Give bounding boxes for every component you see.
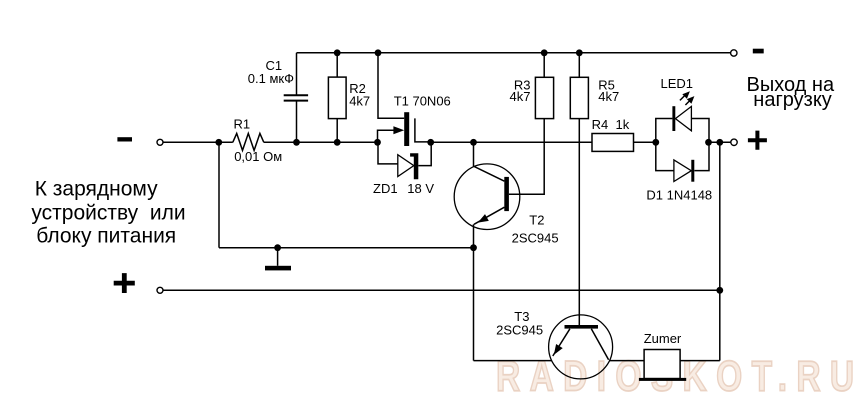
svg-text:Zumer: Zumer xyxy=(644,331,682,346)
node bridge left xyxy=(652,139,659,146)
node output tap xyxy=(716,139,723,146)
wire left branch vertical xyxy=(218,142,220,247)
transistor T3 emitter xyxy=(553,329,570,356)
svg-text:R4: R4 xyxy=(592,117,609,132)
transistor T3 emitter arrow xyxy=(554,344,563,355)
wire R4 to LED bridge xyxy=(634,141,656,143)
wire T3 to Zumer xyxy=(610,360,645,362)
svg-text:D1 1N4148: D1 1N4148 xyxy=(646,187,712,202)
transistor T1 gate arrowhead xyxy=(393,126,404,134)
svg-text:4k7: 4k7 xyxy=(598,89,619,104)
buzzer Zumer box xyxy=(644,350,680,379)
diode D1 triangle xyxy=(674,160,691,182)
node top R5 xyxy=(576,49,583,56)
terminal plus output xyxy=(731,139,737,145)
LED LED1 arrow 2 xyxy=(685,96,694,105)
wire C1 bottom stem xyxy=(296,101,298,142)
svg-text:4k7: 4k7 xyxy=(349,93,370,108)
svg-text:2SC945: 2SC945 xyxy=(496,322,543,337)
polarity minus input xyxy=(117,137,132,141)
terminal plus input xyxy=(157,287,163,293)
wire ZD1 anode loop xyxy=(378,142,398,164)
polarity plus input xyxy=(114,273,135,293)
wire T2 base xyxy=(509,119,544,195)
resistor R1 xyxy=(233,133,264,150)
node main R2 xyxy=(334,139,341,146)
wire ground rail xyxy=(219,247,474,249)
wire plus rail xyxy=(163,289,720,291)
node main left branch xyxy=(215,139,222,146)
LED LED1 arrow 1 xyxy=(680,91,690,100)
wire T1 gate xyxy=(378,130,395,142)
svg-text:T2: T2 xyxy=(529,213,544,228)
wire LED branch right xyxy=(691,119,709,143)
transistor T3 circle xyxy=(549,315,613,379)
svg-text:устройству или: устройству или xyxy=(31,201,185,224)
wire T1 source conductor xyxy=(415,118,431,141)
wire LED branch left xyxy=(656,119,673,143)
wire output junction vertical xyxy=(719,142,721,360)
svg-text:R1: R1 xyxy=(234,117,251,132)
svg-text:LED1: LED1 xyxy=(661,76,694,91)
wire R5 to T3 base xyxy=(578,119,580,325)
resistor R2 xyxy=(328,77,346,119)
resistor R3 xyxy=(535,77,553,118)
node top R2 xyxy=(334,49,341,56)
wire bridge to plus output xyxy=(709,141,731,143)
resistor R5 xyxy=(570,77,588,118)
capacitor C1 xyxy=(284,95,308,100)
LED LED1 triangle xyxy=(675,106,691,130)
wire D1 branch right xyxy=(694,142,709,170)
wire T2 emitter xyxy=(474,207,504,224)
node main C1 xyxy=(293,139,300,146)
svg-text:2SC945: 2SC945 xyxy=(512,230,559,245)
transistor T1 bar xyxy=(404,112,409,146)
wire ZD1 cathode riser xyxy=(418,142,431,165)
polarity plus output xyxy=(748,131,767,150)
svg-text:0.1 мкФ: 0.1 мкФ xyxy=(248,71,294,86)
node ground xyxy=(274,244,281,251)
svg-text:К зарядному: К зарядному xyxy=(35,178,158,201)
polarity minus output xyxy=(753,49,764,54)
terminal minus output xyxy=(731,50,737,56)
node T2 emitter xyxy=(470,244,477,251)
svg-text:1k: 1k xyxy=(616,117,630,132)
svg-text:4k7: 4k7 xyxy=(510,89,531,104)
svg-text:T1 70N06: T1 70N06 xyxy=(394,94,451,109)
wire ground stub xyxy=(277,248,279,266)
wire D1 branch left xyxy=(656,142,674,170)
transistor T2 base bar xyxy=(504,177,509,211)
node top R3 xyxy=(541,49,548,56)
svg-text:0,01 Ом: 0,01 Ом xyxy=(234,149,282,164)
svg-text:18 V: 18 V xyxy=(407,181,434,196)
wire C1 top stem xyxy=(296,53,298,95)
wire R2 bottom stem xyxy=(336,119,338,143)
LED LED1 cathode bar xyxy=(672,106,675,131)
wire R2 top stem xyxy=(336,53,338,77)
wire bottom left segment xyxy=(474,360,552,362)
transistor T2 circle xyxy=(454,164,520,230)
transistor T2 emitter arrow xyxy=(478,214,489,223)
wire T2 collector xyxy=(474,142,505,181)
zener ZD1 cathode bar xyxy=(410,153,418,179)
node plus rail xyxy=(716,287,723,294)
wire Zumer to output vertical xyxy=(680,360,720,362)
wire main left segment xyxy=(163,141,233,143)
transistor T3 collector xyxy=(591,329,608,360)
ground xyxy=(265,266,291,271)
resistor R4 xyxy=(592,134,634,152)
node bridge right xyxy=(705,139,712,146)
wire R5 top stem xyxy=(578,53,580,78)
svg-text:блоку питания: блоку питания xyxy=(36,225,176,248)
transistor T3 base bar xyxy=(565,325,599,329)
svg-text:ZD1: ZD1 xyxy=(373,181,398,196)
node main T2 collector xyxy=(470,139,477,146)
wire main right segment xyxy=(431,141,592,143)
wire top rail xyxy=(297,52,731,54)
wire R3 top stem xyxy=(543,53,545,78)
wire T2 emitter vertical xyxy=(473,224,475,360)
node top T1 drain xyxy=(375,49,382,56)
wire T1 drain xyxy=(378,53,404,119)
node main T1 gate xyxy=(374,139,381,146)
terminal minus input xyxy=(157,139,163,145)
wire main middle segment xyxy=(264,141,378,143)
diode D1 cathode bar xyxy=(691,160,694,182)
node main T1 source xyxy=(427,139,434,146)
svg-text:нагрузку: нагрузку xyxy=(753,89,832,111)
buzzer Zumer base bar xyxy=(639,378,686,381)
zener ZD1 triangle xyxy=(398,155,414,177)
